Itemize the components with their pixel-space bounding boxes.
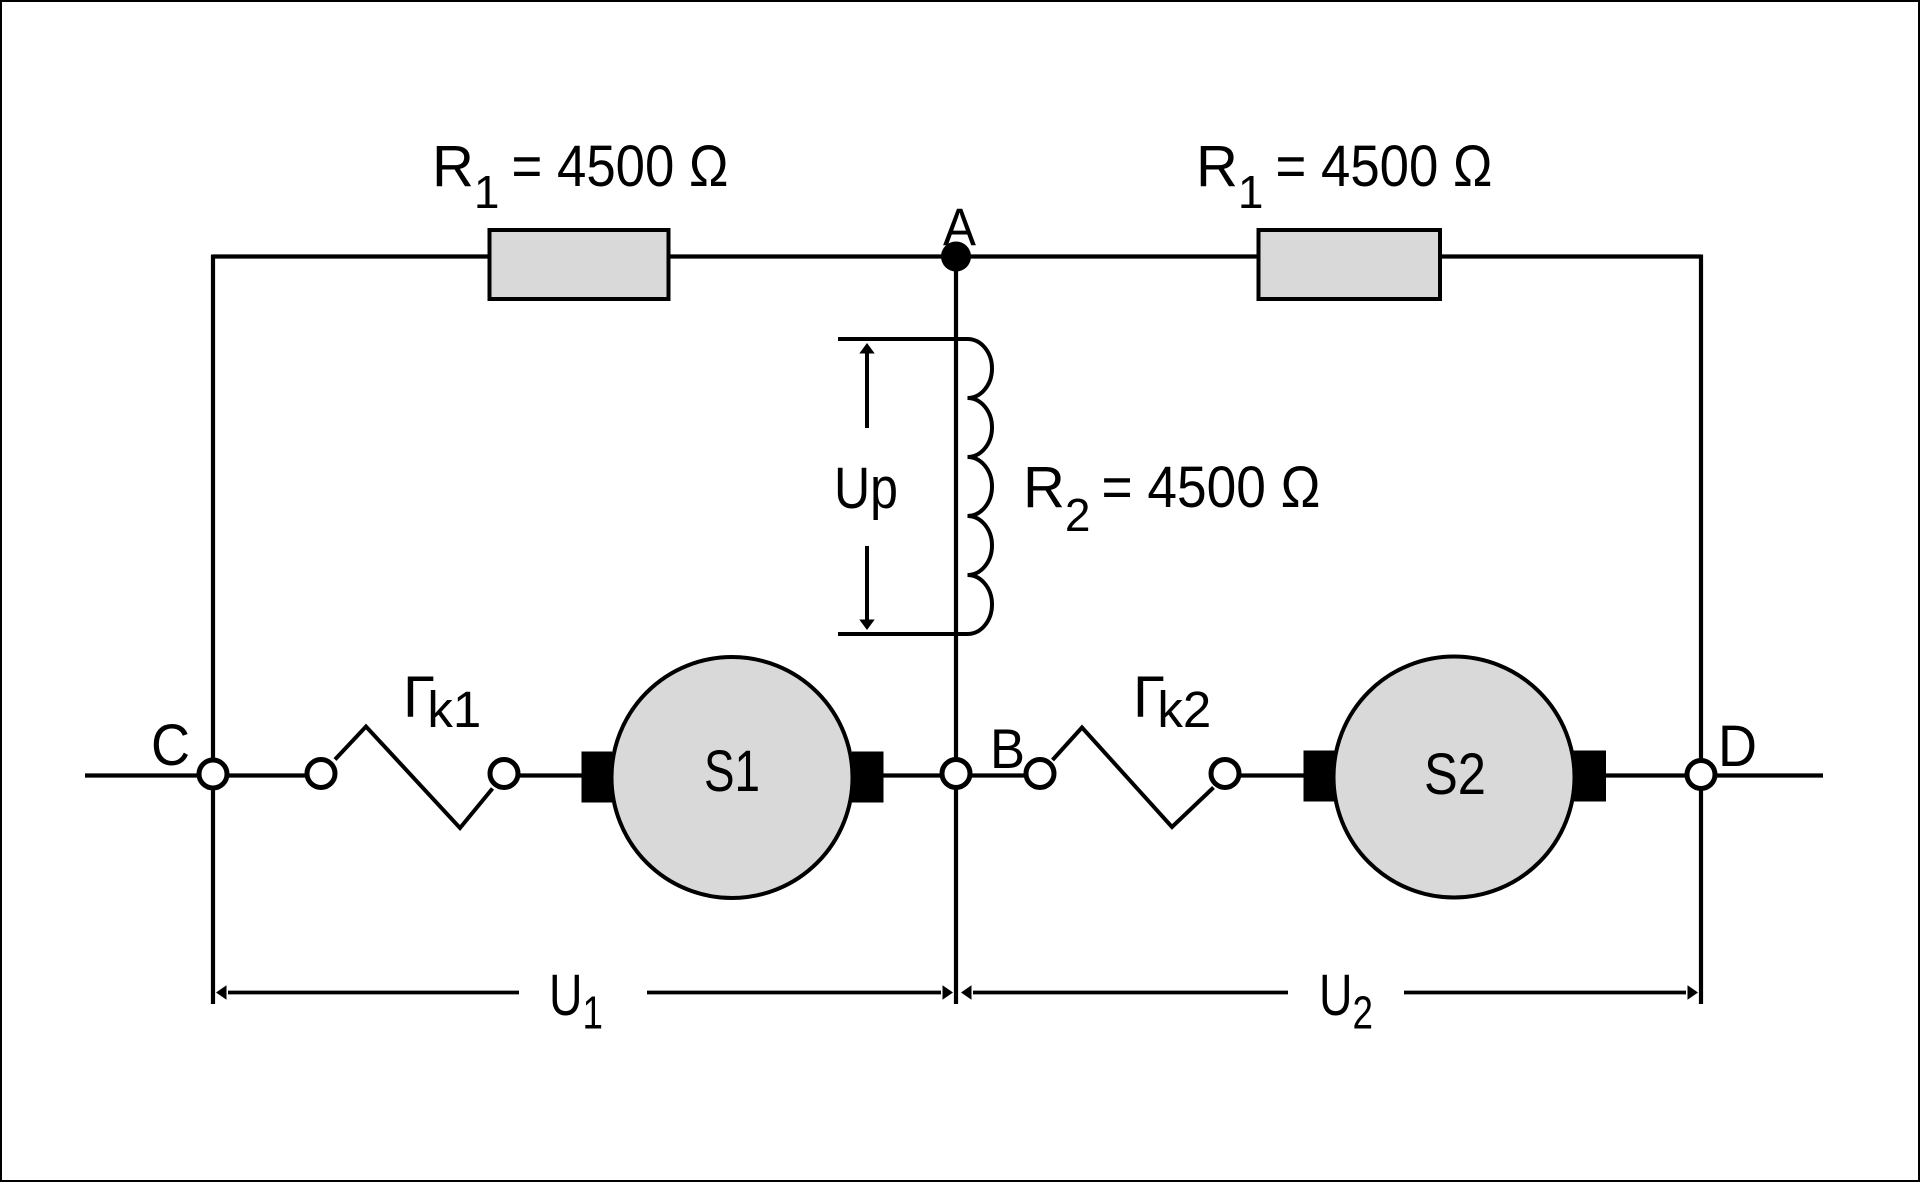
switch rk1 right contact circle [490,760,518,788]
motor S1 body [612,657,853,898]
dimension arrow Up lower segment [865,546,869,622]
dimension U1 line left part [228,991,519,995]
resistor R1 right body [1259,230,1441,299]
motor S2 left brush [1304,751,1336,802]
motor S1 left brush [582,752,613,803]
wire switch rk2 to motor S2 [1217,773,1307,777]
svg-text:B: B [990,717,1025,780]
inductor R2 top tick [838,337,968,341]
switch rk1 left contact circle [307,760,335,788]
svg-text:C: C [151,713,190,778]
wire switch rk1 to motor S1 [496,773,585,777]
svg-text:S1: S1 [704,739,760,804]
node D open terminal circle [1687,761,1715,789]
resistor R1 left body [490,230,669,299]
dimension arrow Up lower head [859,620,874,631]
dimension U1 left arrowhead [216,985,227,999]
motor S1 right brush [852,752,884,803]
wire between R1 right and top-right corner [1437,254,1701,258]
node A junction dot [941,242,971,272]
switch rk2 right contact circle [1211,760,1239,788]
dimension U1 line right part [647,991,941,995]
dimension U2 line right part [1404,991,1686,995]
wire center vertical branch [954,257,958,1005]
node C open terminal circle [199,760,227,788]
svg-text:D: D [1718,714,1757,779]
wire top-left horizontal segment [213,254,488,258]
svg-text:A: A [943,198,977,257]
wire motor S2 to right stub through node D [1600,773,1823,777]
dimension arrow Up upper head [859,343,874,354]
wire right vertical branch [1699,255,1703,1005]
wire left vertical branch [211,255,215,1005]
motor S2 right brush [1573,751,1606,802]
dimension U2 right arrowhead [1688,985,1699,999]
node B open circle [942,760,970,788]
dimension U2 left arrowhead [961,985,972,999]
switch rk1 blade [335,727,493,829]
inductor R2 coil bumps [968,339,993,634]
dimension U2 line left part [973,991,1288,995]
svg-text:S2: S2 [1424,742,1486,807]
wire motor S1 to switch rk2 through node B [878,773,1048,777]
motor S2 body [1334,657,1575,898]
switch rk2 blade [1053,728,1214,828]
wire between R1 left and node A [670,254,1257,258]
inductor R2 bottom tick [838,632,968,636]
dimension arrow Up upper segment [865,353,869,428]
switch rk2 left contact circle [1026,760,1054,788]
svg-text:Up: Up [834,456,898,521]
dimension U1 right arrowhead [943,985,954,999]
wire main line C to switch rk1 [85,773,329,777]
